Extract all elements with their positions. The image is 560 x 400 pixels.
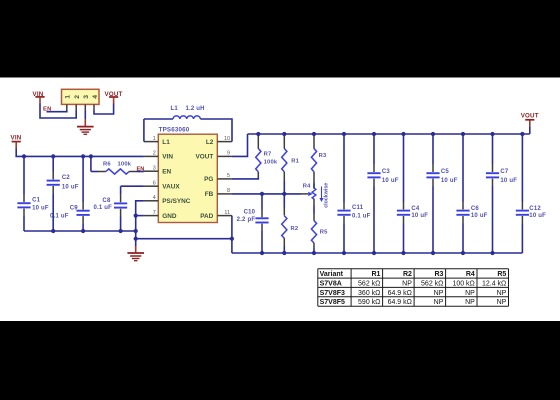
variant table bbox=[318, 269, 509, 307]
svg-text:100k: 100k bbox=[264, 159, 278, 165]
capacitor C7 10 uF bbox=[492, 134, 494, 164]
svg-text:8: 8 bbox=[227, 188, 230, 194]
resistor R1 bbox=[283, 134, 285, 149]
svg-text:7: 7 bbox=[153, 210, 156, 216]
junction (463.0,134) bbox=[461, 132, 465, 136]
top letterbox band bbox=[0, 0, 560, 78]
connector J1 body bbox=[62, 89, 100, 104]
svg-text:NP: NP bbox=[465, 290, 475, 297]
svg-text:10 uF: 10 uF bbox=[62, 184, 79, 190]
svg-text:590 kΩ: 590 kΩ bbox=[358, 299, 380, 306]
wire FB net bbox=[232, 193, 301, 195]
svg-text:R1: R1 bbox=[291, 158, 299, 164]
junction (135.7,231) bbox=[134, 229, 138, 233]
svg-text:R3: R3 bbox=[434, 271, 443, 278]
junction (135.7,215.6) bbox=[134, 214, 138, 218]
pin 3 EN bbox=[144, 170, 158, 172]
junction (262.0,193.9) bbox=[260, 192, 264, 196]
svg-text:PS/SYNC: PS/SYNC bbox=[162, 198, 190, 205]
pin 7 GND bbox=[144, 215, 158, 217]
svg-text:C2: C2 bbox=[62, 175, 71, 181]
svg-text:2: 2 bbox=[74, 95, 81, 99]
svg-text:NP: NP bbox=[434, 290, 444, 297]
node VOUT top bus bbox=[248, 133, 530, 135]
pin 1 L1 bbox=[144, 141, 158, 143]
svg-text:3: 3 bbox=[83, 95, 90, 99]
capacitor C2 10 uF bbox=[52, 156, 54, 171]
pin 9 VOUT bbox=[217, 155, 232, 157]
resistor R5 bbox=[313, 214, 315, 221]
bottom letterbox band bbox=[0, 321, 560, 400]
junction (120.6,231) bbox=[119, 229, 123, 233]
svg-text:R2: R2 bbox=[403, 271, 412, 278]
junction (24.0,156.4) bbox=[22, 154, 26, 158]
capacitor C4 10 uF bbox=[403, 134, 405, 202]
junction (284.3,193.9) bbox=[282, 192, 286, 196]
pin 10 L2 bbox=[217, 141, 232, 143]
junction (433.0,134) bbox=[431, 132, 435, 136]
svg-text:clockwise: clockwise bbox=[323, 183, 329, 208]
wire PAD to bottom bus bbox=[231, 216, 233, 253]
resistor R3 bbox=[313, 134, 315, 149]
junction (284.3,253) bbox=[282, 251, 286, 255]
wire VOUT pin 9 to top bus bbox=[232, 134, 248, 156]
power flag VOUT (main) bbox=[529, 126, 531, 134]
svg-text:3: 3 bbox=[153, 165, 156, 171]
svg-text:2.2 pF: 2.2 pF bbox=[237, 217, 256, 223]
svg-text:L2: L2 bbox=[206, 139, 214, 146]
svg-text:9: 9 bbox=[227, 151, 230, 157]
svg-text:10 uF: 10 uF bbox=[411, 213, 428, 219]
svg-text:C12: C12 bbox=[529, 206, 541, 212]
svg-text:VAUX: VAUX bbox=[162, 184, 180, 191]
svg-text:EN: EN bbox=[137, 167, 145, 173]
svg-text:L1: L1 bbox=[162, 139, 170, 146]
junction (258.3,134) bbox=[256, 132, 260, 136]
pin 5 PG bbox=[217, 178, 232, 180]
svg-text:Variant: Variant bbox=[320, 271, 344, 278]
wire VOUT to connector pin 4 bbox=[94, 104, 114, 115]
junction (53.2,156.4) bbox=[51, 154, 55, 158]
svg-text:C10: C10 bbox=[244, 210, 256, 216]
svg-text:100 kΩ: 100 kΩ bbox=[452, 280, 474, 287]
svg-text:C11: C11 bbox=[352, 205, 364, 211]
svg-text:PAD: PAD bbox=[200, 213, 213, 220]
pin 6 VAUX bbox=[144, 185, 158, 187]
svg-text:S7V8A: S7V8A bbox=[320, 280, 342, 287]
junction (492.5,134) bbox=[490, 132, 494, 136]
junction (403.5,134) bbox=[401, 132, 405, 136]
wire PG to R7 bbox=[232, 177, 258, 179]
svg-text:VIN: VIN bbox=[11, 135, 22, 142]
wire L1 loop left bbox=[143, 119, 145, 142]
junction (53.2,231) bbox=[51, 229, 55, 233]
svg-text:1: 1 bbox=[65, 95, 72, 99]
svg-text:11: 11 bbox=[224, 210, 230, 216]
svg-text:C7: C7 bbox=[500, 169, 509, 175]
svg-text:0.1 uF: 0.1 uF bbox=[50, 213, 69, 219]
svg-text:R2: R2 bbox=[291, 226, 299, 232]
svg-text:64.9 kΩ: 64.9 kΩ bbox=[388, 290, 412, 297]
svg-text:1.2 uH: 1.2 uH bbox=[186, 106, 205, 112]
wire VAUX to C8 bbox=[121, 185, 144, 187]
junction (403.5,253) bbox=[401, 251, 405, 255]
svg-text:TPS63060: TPS63060 bbox=[159, 127, 190, 134]
svg-text:PG: PG bbox=[204, 176, 213, 183]
capacitor C10 2.2 pF bbox=[261, 194, 263, 210]
junction (135.7,238.7) bbox=[134, 237, 138, 241]
junction (522.4,134) bbox=[520, 132, 524, 136]
svg-text:NP: NP bbox=[497, 290, 507, 297]
resistor R6 100k bbox=[90, 156, 92, 171]
svg-text:10 uF: 10 uF bbox=[441, 178, 458, 184]
resistor R7 100k bbox=[257, 134, 259, 149]
junction (314.0,253) bbox=[312, 251, 316, 255]
svg-text:C3: C3 bbox=[382, 169, 391, 175]
resistor R2 bbox=[283, 194, 285, 208]
junction (314.0,134) bbox=[312, 132, 316, 136]
svg-text:VOUT: VOUT bbox=[196, 154, 214, 161]
svg-text:GND: GND bbox=[162, 213, 177, 220]
op-amp/regulator IC U1 TPS63060 body bbox=[158, 134, 217, 222]
svg-text:12.4 kΩ: 12.4 kΩ bbox=[482, 280, 506, 287]
svg-text:VOUT: VOUT bbox=[521, 113, 539, 120]
capacitor C8 0.1 uF bbox=[120, 186, 122, 194]
junction (262.0,253) bbox=[260, 251, 264, 255]
ground (main) bbox=[135, 239, 137, 247]
junction (231.9,238.7) bbox=[230, 237, 234, 241]
svg-text:10 uF: 10 uF bbox=[32, 205, 49, 211]
svg-text:L1: L1 bbox=[171, 106, 179, 112]
svg-text:R5: R5 bbox=[320, 230, 328, 236]
svg-text:S7V8F3: S7V8F3 bbox=[320, 290, 345, 297]
clockwise annotation arrow bbox=[321, 187, 323, 199]
svg-text:1: 1 bbox=[153, 136, 156, 142]
svg-text:10 uF: 10 uF bbox=[471, 213, 488, 219]
svg-text:64.9 kΩ: 64.9 kΩ bbox=[388, 299, 412, 306]
svg-text:EN: EN bbox=[162, 169, 171, 176]
svg-text:100k: 100k bbox=[118, 162, 132, 168]
wire connector pin 3 to ground bbox=[84, 110, 86, 119]
svg-text:C9: C9 bbox=[70, 206, 79, 212]
svg-text:5: 5 bbox=[227, 173, 230, 179]
wire GND rail to PAD column bbox=[136, 238, 232, 240]
wire VIN to connector pin 2 bbox=[40, 103, 76, 118]
junction (83.1,156.4) bbox=[81, 154, 85, 158]
svg-text:4: 4 bbox=[153, 195, 156, 201]
svg-text:C1: C1 bbox=[32, 198, 41, 204]
pin 2 VIN bbox=[144, 155, 158, 157]
svg-text:R5: R5 bbox=[497, 271, 506, 278]
junction (344.0,253) bbox=[342, 251, 346, 255]
svg-text:10 uF: 10 uF bbox=[382, 178, 399, 184]
pin 8 FB bbox=[217, 193, 232, 195]
junction (492.5,253) bbox=[490, 251, 494, 255]
svg-text:R7: R7 bbox=[264, 152, 272, 158]
inductor L1 1.2 uH bbox=[144, 118, 173, 120]
ground (connector) bbox=[77, 126, 94, 128]
svg-text:0.1 uF: 0.1 uF bbox=[352, 213, 371, 219]
svg-text:562 kΩ: 562 kΩ bbox=[421, 280, 443, 287]
svg-text:C6: C6 bbox=[471, 206, 480, 212]
svg-text:10: 10 bbox=[224, 136, 230, 142]
capacitor C12 10 uF bbox=[521, 134, 523, 202]
capacitor C11 0.1 uF bbox=[343, 134, 345, 202]
junction (463.0,253) bbox=[461, 251, 465, 255]
svg-text:FB: FB bbox=[205, 191, 214, 198]
capacitor C3 10 uF bbox=[373, 134, 375, 164]
junction (433.0,253) bbox=[431, 251, 435, 255]
capacitor C5 10 uF bbox=[432, 134, 434, 164]
node GND bottom bus bbox=[232, 252, 523, 254]
capacitor C6 10 uF bbox=[462, 134, 464, 202]
svg-text:S7V8F5: S7V8F5 bbox=[320, 299, 345, 306]
svg-text:C8: C8 bbox=[102, 198, 111, 204]
node GND rail left bbox=[24, 230, 136, 232]
junction (284.3,134) bbox=[282, 132, 286, 136]
wire PS/SYNC + GND tie bbox=[136, 201, 144, 239]
svg-text:R1: R1 bbox=[371, 271, 380, 278]
junction (90.9,156.4) bbox=[89, 154, 93, 158]
junction (374.0,134) bbox=[372, 132, 376, 136]
wire EN to connector pin 1 bbox=[47, 110, 67, 111]
svg-text:NP: NP bbox=[497, 299, 507, 306]
svg-text:4: 4 bbox=[92, 95, 99, 99]
svg-text:R4: R4 bbox=[466, 271, 475, 278]
junction (344.0,134) bbox=[342, 132, 346, 136]
svg-text:NP: NP bbox=[402, 280, 412, 287]
svg-text:562 kΩ: 562 kΩ bbox=[358, 280, 380, 287]
svg-text:0.1 uF: 0.1 uF bbox=[93, 205, 112, 211]
svg-text:360 kΩ: 360 kΩ bbox=[358, 290, 380, 297]
svg-text:C5: C5 bbox=[441, 169, 450, 175]
svg-text:R3: R3 bbox=[319, 153, 327, 159]
capacitor C1 10 uF bbox=[23, 156, 25, 194]
svg-text:R6: R6 bbox=[103, 162, 111, 168]
pin 4 PS/SYNC bbox=[144, 200, 158, 202]
connector pin stubs bbox=[66, 104, 68, 110]
junction (374.0,253) bbox=[372, 251, 376, 255]
wire VIN rail bbox=[16, 149, 144, 157]
svg-text:10 uF: 10 uF bbox=[529, 213, 546, 219]
svg-text:C4: C4 bbox=[411, 206, 420, 212]
svg-text:6: 6 bbox=[153, 180, 156, 186]
svg-text:VIN: VIN bbox=[162, 154, 173, 161]
svg-text:10 uF: 10 uF bbox=[500, 178, 517, 184]
svg-text:R4: R4 bbox=[303, 184, 311, 190]
svg-text:NP: NP bbox=[465, 299, 475, 306]
svg-text:NP: NP bbox=[434, 299, 444, 306]
junction (83.1,231) bbox=[81, 229, 85, 233]
capacitor C9 0.1 uF bbox=[82, 156, 84, 201]
potentiometer R4 bbox=[301, 193, 309, 195]
pin 11 PAD bbox=[217, 215, 232, 217]
svg-text:2: 2 bbox=[153, 151, 156, 157]
